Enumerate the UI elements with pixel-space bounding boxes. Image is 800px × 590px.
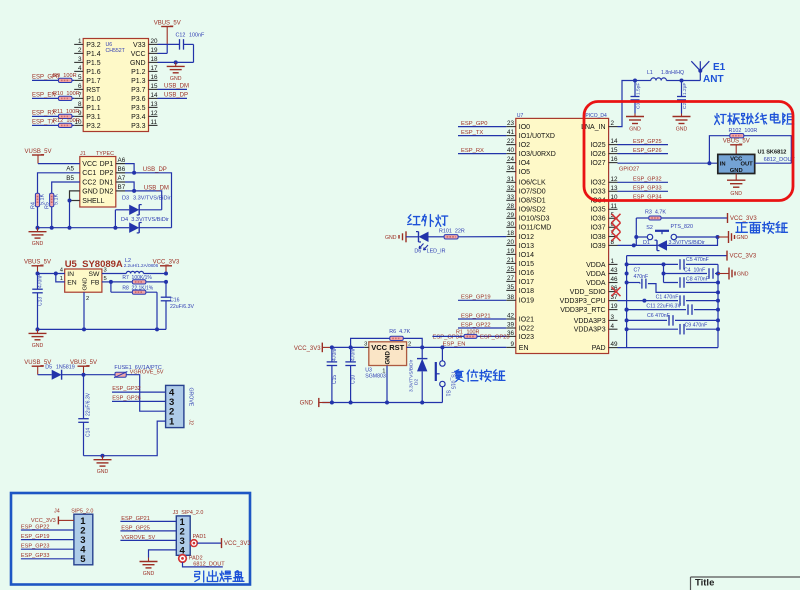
svg-text:IO22: IO22 (519, 325, 534, 332)
junction GND bus (716, 272, 720, 276)
svg-text:49: 49 (611, 341, 619, 348)
wire VUSB to J1 VCC (38, 163, 80, 165)
svg-text:IO6/CLK: IO6/CLK (519, 180, 546, 187)
svg-text:DN1: DN1 (99, 179, 113, 186)
capacitor C15 470nF (331, 347, 333, 362)
svg-text:VCC_3V3: VCC_3V3 (730, 254, 757, 260)
svg-text:VDD_SDIO: VDD_SDIO (570, 289, 606, 296)
wire U5 FB (102, 281, 111, 283)
svg-text:IO11/CMD: IO11/CMD (519, 225, 552, 232)
svg-text:29: 29 (507, 212, 515, 219)
svg-text:GND: GND (143, 571, 155, 577)
junction S2 left (634, 235, 638, 239)
ground (U6) (175, 62, 177, 66)
net label ESP_GP33 (U7) (618, 190, 669, 192)
svg-text:SHELL: SHELL (82, 198, 104, 205)
diode D2 3.3V TVS (vertical) (421, 347, 423, 358)
svg-text:J2: J2 (188, 420, 194, 426)
svg-text:VCC_3V3: VCC_3V3 (224, 541, 251, 547)
svg-text:C15: C15 (332, 375, 338, 384)
ground rail (reset) (322, 402, 442, 404)
wire FB down to R8 (110, 282, 112, 292)
junction C11 bus (625, 308, 629, 312)
svg-text:5: 5 (78, 74, 82, 81)
svg-text:470nF: 470nF (634, 274, 649, 280)
U6 pin 2 (P1.4) (74, 52, 83, 54)
svg-text:VCC: VCC (371, 343, 387, 352)
svg-text:IO15: IO15 (519, 261, 534, 268)
svg-text:6812_DOUT: 6812_DOUT (764, 157, 796, 163)
U7 pin 43 (VDDA) (609, 273, 618, 275)
svg-text:Title: Title (695, 578, 714, 589)
wire U3 RST to EN (407, 346, 507, 348)
wire VBUS to U6 VCC (166, 44, 168, 53)
svg-text:D5: D5 (45, 364, 52, 370)
svg-text:P1.4: P1.4 (86, 51, 101, 58)
svg-text:ESP_GP25: ESP_GP25 (633, 139, 662, 145)
U7 pin 41 (IO1/U0TXD) (506, 135, 516, 137)
wire U3 GND pin1 (386, 366, 388, 403)
U7 pin 26 (VDD_SDIO) (609, 291, 618, 293)
svg-text:31: 31 (507, 176, 515, 183)
svg-text:100R: 100R (467, 330, 480, 336)
resistor R5 5.1K (50, 193, 54, 207)
U6 pin 5 (P1.7) (74, 79, 83, 81)
red highlight box (584, 102, 793, 201)
junction D1 (632, 243, 636, 247)
capacitor C3 1.5pF (634, 81, 636, 97)
svg-text:P1.7: P1.7 (86, 78, 101, 85)
svg-text:GND: GND (737, 272, 749, 278)
wire VBUS to U5 IN (38, 273, 65, 275)
wire DN1 elbow (125, 182, 134, 191)
resistor R10 100R (58, 96, 71, 100)
wire J1 SHELL (70, 200, 80, 202)
wire net ESP_GP22 (U7) (458, 327, 506, 329)
junction rail C10 (349, 401, 353, 405)
svg-text:P3.6: P3.6 (131, 96, 146, 103)
svg-text:R7 100K/1%: R7 100K/1% (122, 275, 152, 281)
svg-text:IO17: IO17 (519, 279, 534, 286)
wire net ESP_RX (U7) (458, 153, 506, 155)
svg-text:P1.5: P1.5 (86, 60, 101, 67)
svg-text:GND: GND (32, 343, 44, 349)
junction S2 right (716, 235, 720, 239)
svg-text:IO16: IO16 (519, 270, 534, 277)
svg-text:TS_015: TS_015 (450, 371, 456, 389)
svg-text:42: 42 (507, 313, 515, 320)
capacitor C2 1.2pF (681, 81, 683, 97)
wire C11 row (627, 309, 716, 311)
wire C9 row (627, 328, 716, 330)
power VBUS_5V (U5) (32, 265, 44, 267)
svg-text:R12 100R: R12 100R (53, 118, 80, 124)
junction GND bus (716, 290, 720, 294)
power VUSB_5V (J1) (32, 154, 44, 156)
svg-text:20: 20 (507, 239, 515, 246)
svg-text:2: 2 (78, 47, 82, 54)
wire VCC bus top (627, 255, 727, 257)
svg-text:IO35: IO35 (590, 207, 605, 214)
svg-text:1.2pF: 1.2pF (682, 83, 688, 95)
svg-text:15: 15 (151, 83, 159, 90)
svg-text:IO14: IO14 (519, 252, 534, 259)
svg-text:32: 32 (507, 185, 515, 192)
label 红外灯 (408, 215, 420, 225)
wire C12 to GND (184, 43, 194, 45)
wire PAD row (618, 347, 719, 349)
svg-text:1: 1 (169, 417, 175, 428)
junction VCC bus (625, 272, 629, 276)
VCC bus vertical (626, 256, 628, 348)
junction VCC bus (625, 327, 629, 331)
connector J4 SIP5 body (74, 514, 93, 565)
svg-text:EN: EN (67, 280, 77, 287)
svg-text:U7: U7 (517, 113, 524, 119)
wire GPIO27 to U1 IN (618, 162, 718, 164)
wire to antenna (682, 80, 701, 82)
svg-text:5: 5 (80, 554, 86, 565)
wire VCC rail to U3 (332, 346, 365, 348)
capacitor C16 22uF (165, 282, 167, 297)
svg-text:22: 22 (507, 138, 515, 145)
svg-text:16: 16 (151, 74, 159, 81)
svg-text:46: 46 (611, 276, 619, 283)
wire net ESP_EN to U6 (32, 97, 74, 99)
svg-text:19: 19 (151, 47, 159, 54)
wire C1 row (644, 300, 716, 302)
wire VGROVE to J2 pin2 (126, 375, 165, 412)
resistor R4 5.1K (35, 193, 39, 207)
U6 pin 12 (P3.4) (149, 115, 158, 117)
U7 pin 34 (IO5) (506, 171, 516, 173)
svg-text:GND: GND (97, 469, 109, 475)
svg-text:ESP_GP32: ESP_GP32 (633, 177, 662, 183)
svg-text:ESP_GP26: ESP_GP26 (633, 148, 662, 154)
U6 pin 9 (P3.1) (74, 115, 83, 117)
U7 pin 27 (IO17) (506, 280, 516, 282)
ground (decoupling) (718, 273, 729, 275)
U7 pin 3 (VDDA3P3) (609, 319, 618, 321)
svg-text:GND: GND (385, 351, 391, 365)
svg-text:R1: R1 (456, 330, 463, 336)
wire U1 OUT (755, 162, 792, 164)
junction FB (109, 280, 113, 284)
svg-text:IO23: IO23 (519, 334, 534, 341)
svg-text:2: 2 (86, 296, 89, 302)
svg-text:1.5pF: 1.5pF (636, 83, 642, 95)
U6 pin 4 (P1.6) (74, 70, 83, 72)
svg-text:15: 15 (611, 147, 619, 154)
junction VCC/L2 (164, 272, 168, 276)
ground (IR) (405, 231, 407, 242)
label 灯板跳线电阻 (715, 114, 727, 125)
svg-text:P3.4: P3.4 (131, 114, 146, 121)
svg-text:D3: D3 (122, 195, 129, 201)
junction rail U5 GND (82, 327, 86, 331)
svg-text:S1: S1 (445, 390, 451, 396)
svg-text:IO25: IO25 (590, 142, 605, 149)
ground (GROVE) (102, 456, 104, 460)
svg-text:ESP_GP26: ESP_GP26 (112, 396, 141, 402)
svg-text:3: 3 (364, 342, 367, 348)
net label ESP_GP26 (U7) (618, 153, 669, 155)
U7 pin 46 (VDDA) (609, 282, 618, 284)
svg-text:CC1: CC1 (82, 170, 96, 177)
U6 pin 13 (P3.5) (149, 106, 158, 108)
svg-text:C9 470nF: C9 470nF (685, 323, 708, 329)
U7 pin 33 (IO8/SD1) (506, 199, 516, 201)
svg-text:DP1: DP1 (100, 161, 114, 168)
svg-text:12: 12 (611, 176, 619, 183)
svg-text:GROVE: GROVE (188, 388, 194, 407)
ground (J3) (148, 558, 150, 562)
wire USB_DP (U6) (158, 97, 188, 99)
svg-text:R5: R5 (45, 202, 51, 209)
junction D2 (420, 345, 424, 349)
svg-text:C2: C2 (682, 103, 688, 109)
capacitor C11 22uF (686, 304, 694, 315)
wire USB_DM (U6) (158, 88, 188, 90)
svg-text:USB_DP: USB_DP (164, 93, 188, 99)
power VCC_3V3 (PAD1) (221, 538, 223, 548)
U7 pin 21 (IO15) (506, 262, 516, 264)
net label ESP_GP34 (U7) (618, 199, 669, 201)
svg-text:P3.2: P3.2 (86, 42, 101, 49)
chip U1 SK6812 body (718, 154, 755, 173)
junction USB_DP (132, 171, 136, 175)
wire ESP_GP33 to J4 (21, 558, 74, 560)
capacitor C4 10nF (707, 268, 715, 279)
U7 pin 31 (IO6/CLK) (506, 181, 516, 183)
svg-text:GND: GND (170, 76, 182, 82)
junction rail D2 (420, 401, 424, 405)
U7 pin 40 (IO3/U0RXD) (506, 153, 516, 155)
svg-text:PTS_820: PTS_820 (671, 224, 693, 230)
antenna E1 ANT (698, 69, 702, 73)
junction rail SHELL (68, 226, 72, 230)
chip U7 PICO_D4 body (516, 118, 609, 353)
svg-text:ESP_RX: ESP_RX (461, 148, 484, 154)
switch S1 TS_015 (441, 347, 443, 360)
wire VGROVE_5V to J3 (120, 539, 176, 541)
svg-text:GPIO27: GPIO27 (619, 167, 639, 173)
svg-text:2: 2 (611, 120, 615, 127)
wire rows to GND bus (716, 263, 718, 265)
power VCC_3V3 (VDDA) (726, 251, 728, 261)
U6 pin 6 (RST) (74, 88, 83, 90)
ground (C2) (681, 114, 683, 117)
svg-text:DN2: DN2 (99, 188, 113, 195)
capacitor C13 470nF (37, 274, 39, 290)
svg-text:17: 17 (151, 65, 159, 72)
GND bus vertical (717, 264, 719, 347)
ground rail (U5) (38, 328, 167, 330)
svg-text:C1 470nF: C1 470nF (656, 295, 679, 301)
wire net ESP_GP0 to U6 (32, 79, 74, 81)
U7 pin 37 (VDD3P3_CPU) (609, 300, 618, 302)
svg-text:VDDA: VDDA (586, 262, 606, 269)
svg-text:1: 1 (78, 38, 82, 45)
U7 pin 36 (IO23) (506, 335, 516, 337)
svg-text:IO5: IO5 (519, 169, 530, 176)
wire J1 GND elbow (70, 191, 80, 201)
svg-text:P3.1: P3.1 (86, 114, 101, 121)
capacitor C8 470nF (678, 277, 686, 288)
svg-text:U1 SK6812: U1 SK6812 (758, 149, 787, 155)
svg-text:C10: C10 (351, 375, 357, 384)
wire ESP_GP22 to J4 (21, 529, 74, 531)
fuse FUSE1 6V/1A/PTC (115, 372, 126, 377)
svg-text:18: 18 (151, 56, 159, 63)
U7 pin 11 (IO35) (609, 208, 618, 210)
svg-text:VBUS_5V: VBUS_5V (723, 139, 750, 145)
svg-text:C14: C14 (86, 428, 92, 437)
svg-text:ESP_TX: ESP_TX (32, 120, 55, 126)
U6 pin 7 (P1.0) (74, 97, 83, 99)
svg-text:5: 5 (104, 276, 107, 282)
wire R3 left down (635, 218, 637, 245)
svg-text:ESP_GP23: ESP_GP23 (480, 334, 510, 340)
junction GND bus (716, 281, 720, 285)
svg-text:DP2: DP2 (100, 170, 114, 177)
junction R7/VCC (164, 280, 168, 284)
U7 pin 15 (IO26) (609, 153, 618, 155)
svg-text:ESP_GP22: ESP_GP22 (461, 322, 491, 328)
svg-text:A6: A6 (118, 157, 126, 164)
capacitor C7 470nF (627, 282, 640, 284)
U6 pin 20 (V33) (149, 43, 158, 45)
junction C10 (349, 345, 353, 349)
junction rail C13 (36, 327, 40, 331)
svg-text:USB_DM: USB_DM (144, 185, 169, 191)
svg-text:R11 100R: R11 100R (53, 109, 79, 115)
svg-text:R3 4.7K: R3 4.7K (645, 209, 666, 215)
svg-text:R101 22R: R101 22R (439, 229, 465, 235)
wire net ESP_TX (U7) (458, 135, 506, 137)
svg-text:12: 12 (151, 110, 159, 117)
junction GND bus (716, 318, 720, 322)
svg-text:IO4: IO4 (519, 160, 530, 167)
svg-text:C8 470nF: C8 470nF (686, 276, 709, 282)
svg-text:IO10/SD3: IO10/SD3 (519, 216, 550, 223)
svg-text:FB: FB (91, 280, 100, 287)
svg-text:ESP_GP21: ESP_GP21 (461, 313, 491, 319)
junction C15 (330, 345, 334, 349)
connector J2 GROVE body (166, 385, 184, 427)
svg-text:IO3/U0RXD: IO3/U0RXD (519, 151, 556, 158)
svg-text:14: 14 (151, 92, 159, 99)
wire C6 row (627, 319, 716, 321)
svg-text:IO27: IO27 (590, 160, 605, 167)
svg-text:28: 28 (507, 203, 515, 210)
svg-text:18: 18 (507, 230, 515, 237)
svg-text:ESP_EN: ESP_EN (443, 342, 466, 348)
junction VCC bus (625, 318, 629, 322)
svg-text:IO36: IO36 (590, 216, 605, 223)
junction C2 (680, 79, 684, 83)
junction U6 GND (174, 60, 178, 64)
junction GND bus (716, 327, 720, 331)
U7 pin 42 (IO21) (506, 318, 516, 320)
net label ESP_GP25 (U7) (618, 144, 669, 146)
U6 pin 11 (P3.3) (149, 124, 158, 126)
svg-text:VBUS_5V: VBUS_5V (70, 360, 97, 366)
svg-text:VCC_3V3: VCC_3V3 (730, 216, 757, 222)
svg-text:L1: L1 (647, 70, 653, 76)
svg-text:GND: GND (676, 127, 688, 133)
chip U6 CH552T body (83, 39, 148, 132)
U7 pin 23 (IO0) (506, 126, 516, 128)
svg-text:1: 1 (382, 369, 385, 375)
svg-text:VBUS_5V: VBUS_5V (154, 20, 181, 26)
wire C8 tie down (663, 274, 665, 283)
svg-text:IO18: IO18 (519, 288, 534, 295)
wire D5 to VBUS (62, 374, 84, 376)
capacitor C1 470nF (678, 295, 686, 306)
svg-text:IO12: IO12 (519, 234, 534, 241)
wire R1 row (432, 335, 506, 337)
svg-text:P1.6: P1.6 (86, 69, 101, 76)
svg-text:19: 19 (507, 248, 515, 255)
svg-text:IO1/U0TXD: IO1/U0TXD (519, 133, 555, 140)
svg-text:1: 1 (611, 258, 615, 265)
svg-text:E1: E1 (713, 62, 726, 73)
wire net ESP_GP21 (U7) (458, 318, 506, 320)
no-connect X (612, 232, 621, 241)
wire CPU row (618, 300, 645, 302)
svg-text:4: 4 (611, 323, 615, 330)
U7 pin 16 (IO27) (609, 162, 618, 164)
svg-text:3.3V/TVS/BiDir: 3.3V/TVS/BiDir (133, 195, 171, 201)
svg-text:VDDA3P3: VDDA3P3 (574, 318, 606, 325)
svg-text:25: 25 (507, 266, 515, 273)
wire net ESP_GP19 (U7) (458, 299, 506, 301)
wire ESP_GP32 to J2 pin4 (112, 391, 166, 393)
svg-text:P1.1: P1.1 (86, 105, 101, 112)
svg-text:IO26: IO26 (590, 151, 605, 158)
power VCC_3V3 (U5) (160, 265, 172, 267)
svg-text:14: 14 (611, 138, 619, 145)
svg-text:CC2: CC2 (82, 179, 96, 186)
svg-text:470nF: 470nF (351, 347, 357, 361)
svg-text:P3.7: P3.7 (131, 87, 146, 94)
wire R5 to rail (51, 207, 53, 228)
capacitor C14 22uF (83, 375, 85, 419)
U7 pin 32 (IO7/SD0) (506, 190, 516, 192)
wire U5 GND pin2 (83, 292, 85, 329)
junction USB_DM (132, 189, 136, 193)
U7 pin 12 (IO32) (609, 181, 618, 183)
wire D3 anode to rail (114, 210, 116, 228)
blue outline box 引出焊盘 (11, 493, 250, 585)
svg-text:IO38: IO38 (590, 234, 605, 241)
svg-text:A5: A5 (66, 166, 74, 173)
net label ESP_GP32 (U7) (618, 181, 669, 183)
wire R4 to rail (37, 207, 39, 228)
svg-text:13: 13 (611, 185, 619, 192)
U6 pin 14 (P3.6) (149, 97, 158, 99)
U7 pin 6 (IO37) (609, 226, 618, 228)
wire SHELL to rail (69, 201, 71, 228)
capacitor C9 470nF (678, 324, 686, 335)
wire net ESP_RX to U6 (32, 115, 74, 117)
wire R101 to IO12 (458, 236, 506, 238)
wire J3 pin4 to gnd (149, 550, 177, 558)
wire C4 tie down (663, 264, 665, 273)
svg-text:3: 3 (611, 314, 615, 321)
svg-text:8: 8 (78, 101, 82, 108)
